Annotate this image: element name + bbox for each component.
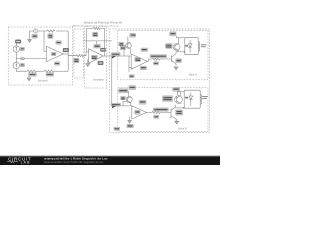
svg-text:mimiquetilafilho | Robô Seguid: mimiquetilafilho | Robô Seguidor de Luz (44, 156, 108, 160)
svg-text:Módulo de Potência (Ponte H): Módulo de Potência (Ponte H) (84, 20, 122, 24)
svg-text:Motor A: Motor A (189, 73, 197, 76)
svg-text:www.circuitlab.com/c/7xq5/robo: www.circuitlab.com/c/7xq5/robo-seguidor-… (44, 161, 104, 164)
svg-text:Motor B: Motor B (178, 127, 187, 130)
svg-text:LAB: LAB (21, 160, 31, 164)
svg-text:Sensores: Sensores (38, 79, 49, 82)
svg-text:Integrador: Integrador (93, 78, 104, 81)
